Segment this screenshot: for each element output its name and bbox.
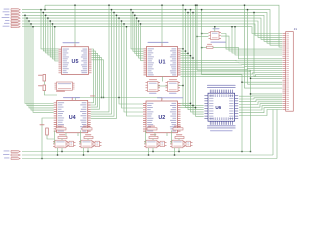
ic U3 (211, 32, 220, 40)
junction (201, 47, 202, 48)
junction (182, 85, 183, 86)
junction (118, 97, 119, 98)
wire column to U6 (186, 10, 204, 108)
junction (231, 26, 232, 27)
label R3 (40, 123, 45, 126)
wire U6 to J1 (239, 102, 282, 105)
wire U5 to U4 (91, 51, 96, 105)
wire (272, 110, 274, 156)
wire U6 to J1 (239, 98, 282, 99)
wire U5 top to bus (74, 5, 76, 44)
wire U6 to J1 (239, 95, 282, 97)
off-page connector IN7 (3, 25, 10, 28)
ic U5 (63, 42, 80, 43)
label above U2 (157, 97, 183, 98)
wire col to J1 (245, 5, 283, 88)
wire (31, 24, 54, 110)
resistor mid OC1 (59, 134, 65, 135)
junction (28, 20, 29, 21)
wire A2 right (178, 85, 183, 87)
optocoupler OC4 (172, 140, 183, 148)
wire U1 to J1 (181, 66, 283, 69)
off-page connector IN2 (3, 10, 10, 13)
wire column (108, 5, 110, 99)
ic U1 (148, 42, 169, 43)
part OC4b (186, 141, 191, 146)
label A1 below (149, 92, 157, 95)
wire (61, 148, 63, 152)
wire column to U6 (193, 12, 204, 114)
resistor above OC3 (148, 126, 155, 127)
wire bus8 to J1 (22, 27, 282, 34)
wire (133, 12, 144, 51)
junction (24, 15, 25, 16)
ic U6 QFP (208, 93, 235, 121)
junction (87, 151, 88, 152)
junction (244, 5, 245, 6)
junction (118, 17, 119, 18)
wire column to U6 (183, 5, 204, 105)
junction (247, 9, 248, 10)
wire U1 to J1 (181, 68, 283, 71)
wire (178, 139, 180, 140)
wire U2 top (161, 98, 163, 100)
wire R4 to J1 (213, 48, 282, 59)
optocoupler OC3 (146, 140, 157, 148)
wire bottom bus2 (22, 154, 273, 156)
wire (43, 12, 58, 51)
wire L route 1 (197, 5, 251, 151)
wire U6 to J1 (239, 100, 282, 102)
wire U2 right (181, 102, 191, 104)
label R1 (38, 74, 43, 77)
ic U4 (57, 100, 88, 132)
optocoupler OC1 (55, 140, 66, 148)
junction (101, 97, 102, 98)
label R2 (38, 84, 43, 87)
label under U3 (211, 42, 227, 43)
wire U3 to col (197, 36, 209, 38)
junction (30, 23, 31, 24)
wire (87, 139, 89, 140)
junction (148, 154, 149, 155)
svg-text:U5: U5 (72, 59, 79, 65)
junction (182, 48, 183, 49)
junction (185, 50, 186, 51)
junction (74, 5, 75, 6)
resistor R4 (207, 46, 214, 48)
wire col to J1 (248, 10, 283, 85)
wire bus4 to J1 (22, 15, 282, 41)
label X1 value (56, 90, 65, 93)
svg-text:U1: U1 (159, 60, 166, 66)
wire U1 right (181, 55, 191, 57)
off-page connector IN5 (5, 19, 10, 22)
label cap (90, 95, 95, 98)
label U10 (213, 28, 220, 29)
svg-text:U2: U2 (158, 115, 165, 121)
junction (134, 15, 135, 16)
wire (152, 148, 154, 152)
resistor above OC1 (57, 126, 64, 127)
wire U1 right (181, 57, 194, 59)
wire bus3 to J1 (22, 12, 282, 43)
wire U1 right (181, 50, 186, 52)
wire (137, 18, 144, 56)
wire (55, 27, 59, 61)
wire (27, 18, 54, 106)
wire (154, 133, 156, 136)
junction (126, 26, 127, 27)
junction (113, 12, 114, 13)
junction (250, 93, 251, 94)
wire (87, 148, 89, 152)
ic U2 (146, 101, 178, 133)
wire col to J1 (232, 27, 282, 53)
wire U1 to J1 (181, 59, 283, 62)
junction (234, 26, 235, 27)
off-page connector IN1 (4, 8, 10, 11)
junction (187, 53, 188, 54)
wire mid (76, 97, 163, 99)
junction (50, 20, 51, 21)
label R4 (207, 43, 212, 46)
junction (192, 105, 193, 106)
wire U1 to J1 (181, 62, 283, 64)
junction (61, 151, 62, 152)
label A2 below (169, 92, 177, 95)
resistor mid OC3 (150, 134, 156, 135)
wire U5 to U4 (91, 53, 98, 107)
wire (44, 91, 57, 95)
wire (61, 139, 63, 140)
wire (152, 139, 154, 140)
junction (196, 5, 197, 6)
wire (43, 82, 45, 85)
wire tap to J1 (242, 81, 282, 83)
junction (195, 5, 196, 6)
junction (83, 154, 84, 155)
wire column (113, 12, 115, 99)
wire U1 top to bus (161, 5, 163, 43)
wire tap to J1 (251, 93, 283, 95)
wire U6 to J1 (239, 106, 282, 110)
wire U1 right (181, 52, 189, 54)
wire U6 to J1 pin39 (239, 110, 282, 116)
wire U2 right (181, 105, 194, 107)
component A2 (168, 82, 179, 92)
junction (201, 9, 202, 10)
wire (135, 15, 144, 53)
wire L route 2 (202, 10, 242, 152)
junction (121, 20, 122, 21)
wire bottom bus1 (22, 151, 251, 153)
resistor R1 (43, 75, 46, 82)
wire column to U6 (196, 5, 204, 116)
wire column (116, 15, 118, 99)
junction (214, 26, 215, 27)
wire (57, 148, 59, 155)
wire U5 to U4 (91, 49, 94, 103)
off-page connector OUT1 (4, 150, 10, 153)
off-page connector IN6 (4, 22, 10, 25)
resistor R2 (43, 85, 46, 91)
optocoupler OC2 (81, 140, 92, 148)
wire column (121, 21, 123, 99)
wire (29, 21, 54, 108)
wire bus1 to J1 (45, 5, 282, 47)
wire (144, 130, 146, 143)
wire (44, 5, 46, 9)
wire U6 to J1 pin38 (239, 108, 282, 113)
part OC1b (69, 141, 74, 146)
wire A1-A2 (158, 85, 168, 87)
wire R4 left (202, 47, 207, 49)
label X1 (63, 97, 80, 98)
wire tap to J1 (251, 77, 283, 79)
junction (250, 78, 251, 79)
junction (190, 9, 191, 10)
part OC2b (95, 141, 100, 146)
junction (253, 12, 254, 13)
svg-text:U6: U6 (215, 105, 221, 110)
junction (32, 26, 33, 27)
junction (44, 9, 45, 10)
wire (141, 24, 144, 61)
junction (178, 151, 179, 152)
junction (140, 23, 141, 24)
wire (50, 21, 58, 57)
wire (91, 99, 117, 118)
wire column (111, 10, 113, 99)
wire U3 top (214, 27, 216, 32)
wire (47, 135, 54, 139)
junction (182, 5, 183, 6)
wire U5 to U4 (91, 56, 100, 110)
junction (196, 36, 197, 37)
junction (174, 154, 175, 155)
junction (250, 151, 251, 152)
wire (83, 148, 85, 155)
junction (130, 9, 131, 10)
wire col to J1 (254, 12, 282, 76)
wire (119, 99, 143, 104)
wire (53, 24, 59, 59)
junction (190, 55, 191, 56)
wire col to J1 (235, 27, 282, 55)
junction (190, 103, 191, 104)
junction (152, 151, 153, 152)
junction (54, 26, 55, 27)
wire U3 to col (202, 33, 209, 35)
wire U1 to J1 (181, 71, 283, 72)
wire (131, 10, 144, 49)
wire (166, 133, 168, 136)
junction (111, 9, 112, 10)
junction (47, 17, 48, 18)
resistor above OC2 (83, 126, 90, 127)
wire (127, 99, 144, 116)
wire U1 to J1 (181, 73, 283, 75)
junction (52, 23, 53, 24)
junction (187, 12, 188, 13)
wire U1 right (181, 48, 184, 50)
oscillator X1 (57, 82, 73, 90)
junction (123, 23, 124, 24)
wire bus6 to J1 (22, 21, 282, 37)
wire (174, 148, 176, 155)
svg-text:J1: J1 (294, 27, 298, 31)
wire U4 left to bottom bus (42, 118, 54, 159)
component A1 (148, 82, 159, 92)
wire (25, 15, 54, 103)
wire column to U6 (188, 12, 204, 109)
junction (103, 97, 104, 98)
junction (161, 5, 162, 6)
junction (138, 20, 139, 21)
label A1 (149, 78, 157, 81)
wire U2 right (181, 107, 196, 109)
wire U1 to J1 (181, 64, 283, 66)
wire (91, 99, 114, 116)
wire (79, 130, 81, 143)
wire column (123, 24, 125, 99)
wire (33, 27, 54, 113)
resistor mid OC2 (85, 134, 91, 135)
wire column (118, 18, 120, 99)
label A2 (169, 78, 177, 81)
off-page connector IN4 (2, 16, 10, 19)
wire U1 to J1 (181, 74, 283, 76)
junction (40, 9, 41, 10)
wire U3 to J1 (221, 36, 282, 51)
junction (116, 15, 117, 16)
wire column (126, 27, 128, 99)
wire (124, 99, 143, 112)
wire (170, 130, 172, 143)
wire bottom bus3 (22, 158, 277, 160)
junction (43, 12, 44, 13)
wire bus5 to J1 (22, 18, 282, 39)
wire U3 to J1 (221, 34, 282, 50)
junction (132, 12, 133, 13)
wire (148, 148, 150, 155)
connector J1 (286, 32, 294, 112)
off-page connector OUT2 (3, 153, 10, 156)
wire (139, 21, 144, 58)
junction (201, 33, 202, 34)
junction (192, 12, 193, 13)
resistor R3 (46, 128, 49, 135)
resistor mid OC4 (176, 134, 182, 135)
junction (195, 107, 196, 108)
wire bus7 to J1 (22, 24, 282, 36)
off-page connector OUT3 (4, 157, 10, 160)
wire U6 to J1 (239, 104, 282, 108)
junction (185, 9, 186, 10)
junction (41, 158, 42, 159)
wire (91, 99, 109, 112)
resistor above OC4 (174, 126, 181, 127)
wire (178, 148, 180, 152)
junction (241, 151, 242, 152)
part OC3b (160, 141, 165, 146)
wire (65, 133, 67, 136)
junction (26, 17, 27, 18)
wire (53, 130, 55, 143)
wire U4 top (75, 98, 77, 101)
wire (77, 133, 79, 136)
junction (108, 5, 109, 6)
wire (41, 10, 59, 49)
wire (48, 18, 59, 55)
junction (192, 57, 193, 58)
junction (57, 154, 58, 155)
wire (46, 15, 59, 53)
wire U1 bottom to A1 (162, 77, 164, 82)
wire bus2 to J1 (22, 10, 282, 46)
wire U5 right (92, 58, 102, 98)
junction (241, 82, 242, 83)
off-page connector IN3 (5, 13, 10, 16)
junction (45, 15, 46, 16)
wire U5 right (92, 60, 104, 98)
junction (136, 17, 137, 18)
svg-text:U4: U4 (69, 115, 76, 121)
wire (276, 110, 278, 159)
wire (122, 99, 144, 108)
wire column to U6 (191, 10, 204, 112)
wire (91, 99, 112, 114)
